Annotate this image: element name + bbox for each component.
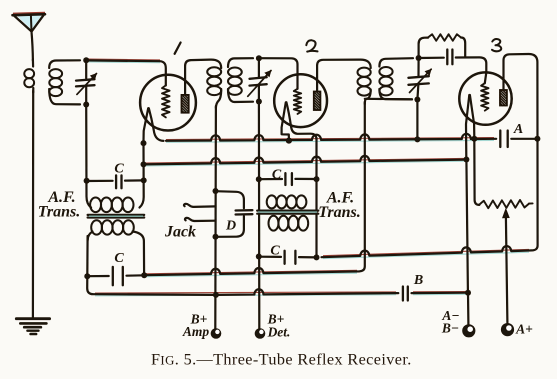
- svg-text:C: C: [114, 251, 124, 266]
- svg-text:Amp: Amp: [182, 324, 210, 339]
- svg-text:C: C: [272, 168, 282, 183]
- svg-text:A: A: [513, 122, 523, 137]
- svg-text:Jack: Jack: [164, 224, 196, 241]
- svg-text:B: B: [413, 273, 423, 288]
- svg-text:D: D: [225, 219, 236, 234]
- svg-text:B−: B−: [441, 321, 459, 336]
- svg-text:Trans.: Trans.: [318, 204, 361, 221]
- svg-text:Trans.: Trans.: [38, 204, 81, 221]
- svg-text:C: C: [114, 162, 124, 177]
- svg-text:FIG. 5.—Three-Tube Reflex Rece: FIG. 5.—Three-Tube Reflex Receiver.: [151, 351, 412, 369]
- svg-text:A+: A+: [515, 322, 533, 337]
- svg-text:C: C: [270, 244, 280, 259]
- svg-text:Det.: Det.: [267, 325, 291, 340]
